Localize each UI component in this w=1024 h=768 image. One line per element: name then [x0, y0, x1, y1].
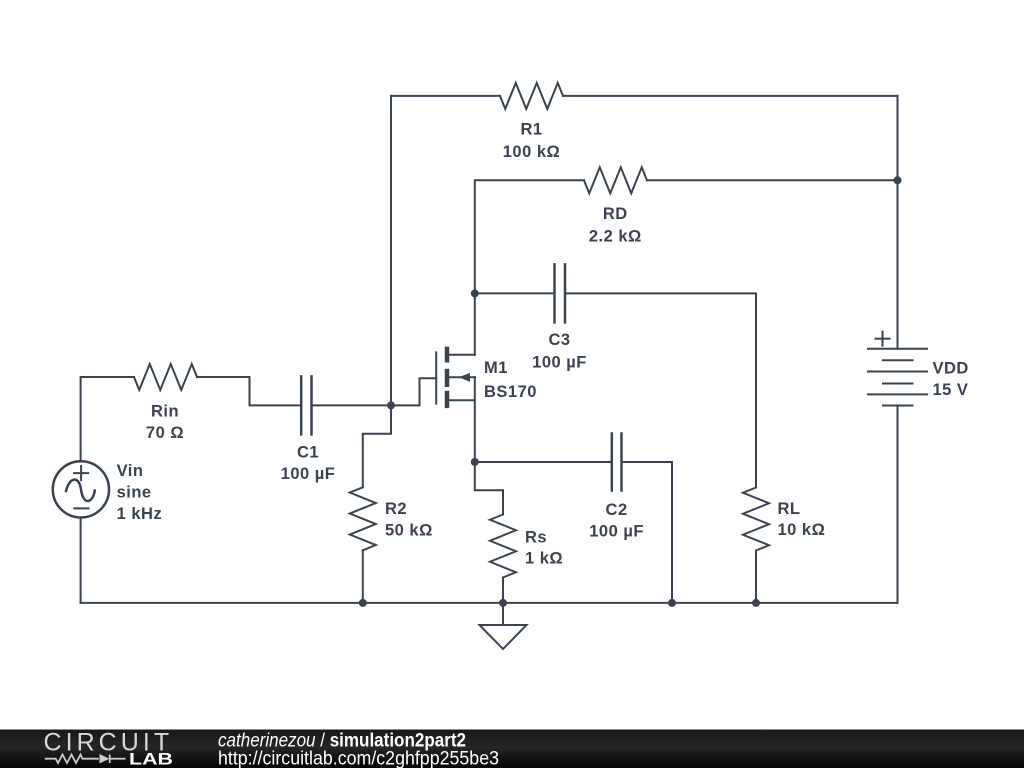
svg-text:R2: R2 [385, 500, 407, 518]
svg-text:C2: C2 [606, 501, 628, 519]
wire R2 bottom lead [362, 550, 364, 603]
footer bar [0, 730, 1024, 768]
resistor RL [743, 488, 769, 551]
svg-text:Rs: Rs [525, 529, 547, 547]
wire bottom rail [81, 602, 898, 604]
capacitor C1 [301, 376, 311, 434]
svg-text:R1: R1 [520, 121, 542, 139]
transistor M1 [436, 347, 475, 408]
wire VDD rail vertical top [897, 96, 899, 349]
logo resistor-diode squiggle [45, 755, 126, 764]
node RL bottom junction [752, 599, 760, 607]
svg-text:10 kΩ: 10 kΩ [778, 521, 826, 539]
svg-text:VDD: VDD [933, 360, 969, 378]
svg-text:100 µF: 100 µF [532, 354, 587, 372]
logo diode triangle [100, 754, 110, 763]
wire gate node to M1 gate [391, 378, 436, 405]
node RD VDD junction [894, 176, 902, 184]
svg-text:RD: RD [603, 205, 628, 223]
svg-text:M1: M1 [484, 359, 508, 377]
wire C2 node to C2 left plate [475, 461, 612, 463]
svg-text:BS170: BS170 [484, 383, 537, 401]
svg-text:15 V: 15 V [933, 381, 969, 399]
svg-text:50 kΩ: 50 kΩ [385, 522, 433, 540]
svg-text:Rin: Rin [151, 402, 179, 420]
resistor Rin [134, 364, 197, 390]
wire C2 node down jog to Rs top [475, 462, 503, 515]
wire drain node to C3 [475, 292, 555, 294]
svg-text:1 kΩ: 1 kΩ [525, 550, 563, 568]
resistor Rs [490, 515, 516, 578]
svg-text:C1: C1 [297, 444, 319, 462]
wire top rail right of R1 [563, 95, 898, 97]
voltage source Vin [53, 461, 109, 517]
node R2 bottom junction [359, 599, 367, 607]
wire Rin to C1 with jog down [197, 377, 301, 405]
svg-text:Vin: Vin [117, 462, 144, 480]
wire top rail left of R1 [391, 95, 500, 97]
node ground junction [499, 599, 507, 607]
wire left vertical from gate node up to R1 row [390, 96, 392, 406]
node source C2 junction [471, 458, 479, 466]
wire R2 jog from gate node down [363, 405, 391, 487]
wire RD row left and drain vertical [475, 180, 584, 354]
node C2 bottom junction [668, 599, 676, 607]
capacitor C2 [612, 434, 622, 491]
svg-text:100 kΩ: 100 kΩ [503, 143, 561, 161]
wire Vin top lead up and right to Rin [81, 377, 134, 461]
wire C3 right and down to RL top [565, 293, 756, 487]
resistor RD [584, 167, 647, 193]
svg-text:100 µF: 100 µF [281, 465, 336, 483]
wire Vin bottom lead [80, 518, 82, 603]
ground [480, 603, 527, 649]
svg-text:C3: C3 [548, 331, 570, 349]
battery VDD [868, 332, 927, 406]
wire RD to VDD rail [647, 179, 898, 181]
resistor R2 [350, 487, 376, 550]
wire M1 source down to C2 node [474, 377, 476, 462]
svg-text:http://circuitlab.com/c2ghfpp2: http://circuitlab.com/c2ghfpp255be3 [218, 748, 499, 768]
wire RL bottom lead [755, 551, 757, 603]
wire battery bottom to bottom rail [897, 406, 899, 603]
wire C1 to gate node [312, 404, 392, 406]
svg-text:RL: RL [778, 500, 801, 518]
wire Rs bottom lead [502, 578, 504, 603]
svg-text:2.2 kΩ: 2.2 kΩ [589, 228, 642, 246]
svg-text:sine: sine [117, 483, 152, 501]
svg-text:70 Ω: 70 Ω [146, 424, 184, 442]
node gate junction [387, 401, 395, 409]
wire C2 right and down to bottom rail [622, 462, 673, 603]
svg-text:1 kHz: 1 kHz [117, 505, 163, 523]
resistor R1 [500, 83, 563, 109]
svg-text:LAB: LAB [129, 749, 173, 768]
svg-text:100 µF: 100 µF [589, 523, 644, 541]
node drain C3 junction [471, 289, 479, 297]
capacitor C3 [555, 264, 566, 322]
